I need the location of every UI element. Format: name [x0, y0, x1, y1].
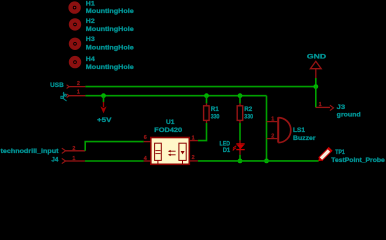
- resistor R2: [237, 103, 253, 123]
- svg-text:R2: R2: [244, 106, 252, 113]
- power +5V symbol: [97, 102, 113, 124]
- node R2 junction: [238, 93, 243, 98]
- wire R1 to opto pin1 elbow: [198, 123, 207, 141]
- connector J3: [316, 102, 361, 119]
- svg-text:H2: H2: [86, 18, 96, 25]
- svg-text:TP1: TP1: [335, 149, 345, 156]
- op-amp U1 FOD420 opto-isolator: [144, 119, 198, 164]
- svg-text:MountingHole: MountingHole: [86, 26, 135, 33]
- svg-text:D1: D1: [223, 147, 231, 154]
- svg-text:6: 6: [144, 135, 147, 141]
- wire J4 pin1 to opto: [85, 160, 144, 162]
- pin 4: [144, 160, 151, 162]
- node GND junction: [313, 84, 318, 89]
- wire to R2: [239, 96, 241, 104]
- svg-text:USB: USB: [50, 82, 64, 89]
- svg-text:1: 1: [319, 102, 322, 108]
- pin 6: [144, 141, 151, 143]
- svg-text:R1: R1: [211, 106, 219, 113]
- wire down to J3: [315, 87, 317, 108]
- wire +5V net (second horizontal): [85, 95, 266, 97]
- internal light arrows: [170, 150, 176, 152]
- svg-text:LS1: LS1: [293, 127, 306, 134]
- svg-text:+5V: +5V: [97, 117, 113, 124]
- USB pin 1: [67, 90, 86, 98]
- mounting hole H1: [71, 1, 135, 15]
- wire J4 pin2 riser: [85, 142, 144, 151]
- svg-text:1: 1: [192, 135, 195, 141]
- mounting hole H4: [71, 56, 134, 71]
- svg-text:2: 2: [271, 134, 274, 140]
- J4 pin 1: [62, 156, 85, 163]
- svg-text:MountingHole: MountingHole: [86, 45, 135, 52]
- wire GND symbol to bus: [315, 78, 317, 87]
- svg-text:MountingHole: MountingHole: [86, 64, 135, 71]
- internal led loop: [179, 143, 186, 160]
- test point TP1 probe: [318, 148, 385, 164]
- svg-text:Buzzer: Buzzer: [293, 135, 316, 142]
- svg-text:J3: J3: [337, 104, 346, 111]
- svg-text:2: 2: [72, 146, 75, 152]
- svg-text:FOD420: FOD420: [154, 127, 183, 134]
- svg-text:2: 2: [77, 81, 80, 87]
- svg-text:U1: U1: [166, 119, 175, 126]
- node +5V tap junction: [101, 93, 106, 98]
- svg-text:H3: H3: [86, 36, 96, 43]
- pin 2: [189, 160, 198, 162]
- wire buzzer vertical: [266, 96, 268, 161]
- svg-text:H4: H4: [86, 56, 96, 63]
- svg-text:1: 1: [72, 156, 75, 162]
- wire LED to bottom: [239, 155, 241, 161]
- node LED bottom junction: [238, 159, 243, 164]
- svg-text:ground: ground: [337, 112, 361, 119]
- USB trident icon: [61, 92, 67, 101]
- mounting hole H3: [71, 36, 134, 51]
- buzzer LS1: [267, 117, 317, 143]
- svg-text:1: 1: [77, 90, 80, 96]
- wire R2 to LED: [239, 123, 241, 140]
- power GND symbol: [307, 54, 327, 78]
- svg-text:2: 2: [192, 155, 195, 161]
- wire to R1: [206, 96, 208, 104]
- svg-text:technodrill_input: technodrill_input: [1, 148, 60, 155]
- J4 pin 2: [62, 146, 85, 153]
- svg-text:330: 330: [211, 114, 220, 121]
- svg-text:330: 330: [244, 114, 253, 121]
- svg-text:4: 4: [144, 156, 147, 162]
- wire GND net (top horizontal): [85, 86, 315, 88]
- svg-text:1: 1: [271, 117, 274, 123]
- resistor R1: [204, 103, 220, 123]
- wire +5V stub down: [103, 96, 105, 103]
- svg-text:GND: GND: [307, 54, 327, 61]
- node R1 junction: [204, 93, 209, 98]
- pin 1: [189, 140, 198, 142]
- svg-text:TestPoint_Probe: TestPoint_Probe: [331, 157, 385, 164]
- wire bottom net: [198, 160, 319, 162]
- USB pin 2: [67, 81, 86, 89]
- LED D1: [220, 140, 245, 155]
- mounting hole H2: [71, 18, 134, 33]
- node buzzer bottom junction: [264, 159, 269, 164]
- svg-text:H1: H1: [86, 1, 96, 8]
- svg-text:MountingHole: MountingHole: [86, 8, 135, 15]
- svg-text:J4: J4: [51, 157, 58, 164]
- internal detector loop: [155, 143, 162, 160]
